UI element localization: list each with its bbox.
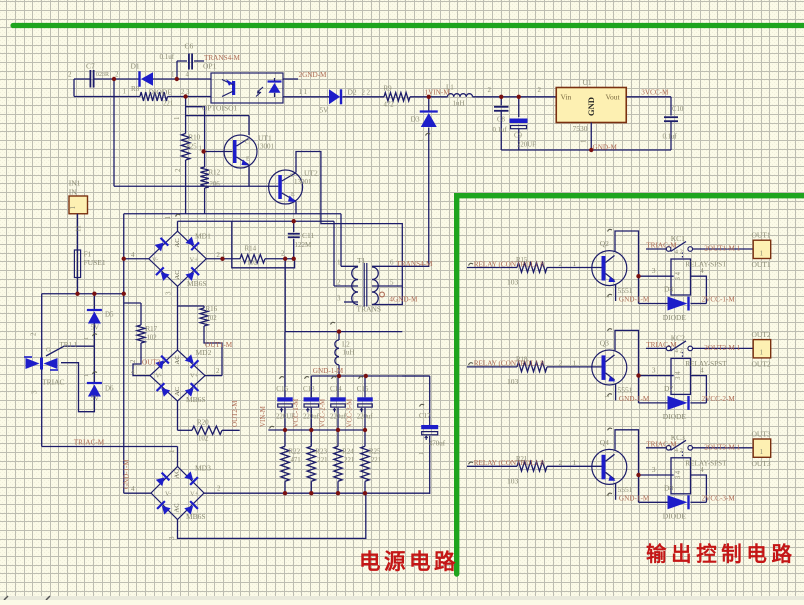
svg-text:1: 1 [760,249,764,257]
svg-text:E: E [291,192,295,198]
svg-text:2OUT2-M 1: 2OUT2-M 1 [704,344,741,352]
svg-text:V-: V- [152,257,158,264]
svg-text:1: 1 [68,206,77,210]
svg-text:2: 2 [559,458,563,467]
svg-text:3 4: 3 4 [675,371,682,380]
svg-text:GND-1-M: GND-1-M [619,395,650,403]
svg-text:TRANS4-M: TRANS4-M [397,260,434,268]
svg-text:2VCC-1-M: 2VCC-1-M [702,296,736,304]
svg-text:102: 102 [247,260,258,267]
svg-text:DIODE: DIODE [663,412,687,421]
svg-text:C13: C13 [303,385,315,393]
svg-text:C16: C16 [276,385,288,393]
svg-text:C15: C15 [357,385,369,393]
svg-text:2: 2 [337,279,341,287]
svg-text:220UF: 220UF [517,141,536,148]
svg-text:IN1: IN1 [69,179,81,188]
svg-text:13001: 13001 [294,178,312,186]
svg-text:DIODE: DIODE [663,512,687,521]
svg-text:4: 4 [131,251,135,259]
svg-text:1: 1 [418,139,425,142]
svg-text:5V: 5V [91,324,100,332]
svg-text:103: 103 [507,377,519,386]
svg-text:221: 221 [317,457,327,464]
svg-text:RELAY (CONTROL1 8: RELAY (CONTROL1 8 [474,459,545,467]
svg-text:4: 4 [131,485,135,493]
svg-text:AC: AC [174,387,181,396]
svg-text:102: 102 [147,335,158,342]
svg-text:D3: D3 [411,115,420,124]
svg-text:R18: R18 [516,356,528,363]
svg-text:DIODE: DIODE [149,88,173,97]
svg-text:3: 3 [165,291,173,295]
svg-text:2: 2 [559,259,563,268]
svg-text:Q2: Q2 [600,239,609,248]
svg-text:2VCC-2-M: 2VCC-2-M [702,395,736,403]
svg-text:MB6S: MB6S [186,512,206,521]
svg-text:R25: R25 [369,448,381,456]
svg-text:6: 6 [390,259,394,267]
svg-text:OUT1: OUT1 [752,260,771,269]
svg-text:1: 1 [123,88,127,96]
svg-text:RELAY (CONTROL1 8: RELAY (CONTROL1 8 [474,260,545,268]
svg-text:T1: T1 [357,256,366,265]
svg-text:1: 1 [573,458,577,467]
svg-text:2: 2 [281,251,285,258]
svg-text:2: 2 [174,168,182,172]
svg-text:1: 1 [573,358,577,367]
svg-text:1: 1 [83,337,90,340]
svg-text:1: 1 [199,146,202,153]
svg-text:TRIAC-M: TRIAC-M [646,242,677,250]
svg-text:Q3: Q3 [600,338,609,347]
svg-text:220uf: 220uf [330,413,347,420]
svg-text:1: 1 [168,449,176,453]
svg-text:C8: C8 [497,117,506,124]
svg-text:0.1uf: 0.1uf [663,134,678,141]
svg-text:3: 3 [337,295,341,303]
svg-text:4 2: 4 2 [675,447,683,454]
svg-text:OUT3: OUT3 [752,429,771,438]
svg-text:Vin: Vin [561,93,572,102]
svg-text:4 2: 4 2 [675,348,683,355]
svg-text:R16: R16 [206,305,218,313]
svg-text:GND-1-M: GND-1-M [123,459,131,489]
svg-text:221: 221 [371,457,381,464]
svg-text:3 4: 3 4 [675,271,682,280]
svg-text:470uf: 470uf [429,439,446,447]
svg-text:RELAY (CONTROL1 8: RELAY (CONTROL1 8 [474,360,545,368]
svg-text:C17: C17 [419,412,431,420]
svg-text:MB6S: MB6S [186,395,206,404]
svg-text:TRANS: TRANS [357,305,382,314]
svg-text:L1: L1 [446,84,454,92]
svg-text:1: 1 [581,140,588,143]
svg-text:OUT1-M: OUT1-M [205,341,233,349]
svg-text:102: 102 [198,436,209,443]
svg-text:OUT2-M: OUT2-M [231,400,239,427]
svg-text:221: 221 [163,101,173,108]
svg-text:R14: R14 [245,245,257,253]
svg-text:VCC-1-M: VCC-1-M [292,398,300,428]
svg-text:471: 471 [291,457,301,464]
svg-text:RELAY-SPST: RELAY-SPST [685,360,727,368]
svg-text:GND-1-M: GND-1-M [619,495,650,503]
svg-text:Vout: Vout [606,93,621,102]
svg-text:GND: GND [586,97,596,116]
svg-text:1uH: 1uH [343,349,355,357]
svg-text:VIN-M: VIN-M [259,405,267,427]
svg-text:3VCC-M: 3VCC-M [641,89,669,97]
svg-text:输出控制电路: 输出控制电路 [646,542,797,566]
svg-text:4: 4 [186,71,190,79]
svg-text:MD2: MD2 [196,348,212,357]
svg-text:220uf: 220uf [303,413,320,420]
svg-text:2: 2 [68,71,72,79]
svg-text:TRIAC-M: TRIAC-M [74,439,105,447]
svg-text:GND-1-M: GND-1-M [619,296,650,304]
svg-text:2OUT1-M 1: 2OUT1-M 1 [704,245,741,253]
svg-text:OPTOISO1: OPTOISO1 [202,104,238,113]
svg-text:2: 2 [217,485,221,493]
svg-text:2: 2 [216,367,220,375]
svg-text:AC: AC [174,469,181,478]
svg-text:825: 825 [187,144,198,151]
svg-text:2VCC-3-M: 2VCC-3-M [702,495,736,503]
svg-text:D1: D1 [131,62,140,71]
svg-text:RELAY-SPST: RELAY-SPST [685,261,727,269]
svg-text:TRIAC-M: TRIAC-M [646,341,677,349]
svg-text:VCC-3-M: VCC-3-M [345,398,353,428]
svg-text:102: 102 [207,315,218,322]
svg-text:4: 4 [131,368,135,376]
svg-text:2: 2 [559,358,563,367]
svg-text:OP1: OP1 [203,62,217,71]
svg-text:2OUT3-M 1: 2OUT3-M 1 [704,443,741,451]
svg-text:V+: V+ [190,257,199,264]
svg-text:1 1: 1 1 [299,89,308,96]
svg-text:TRIAC: TRIAC [42,378,65,387]
svg-text:V+: V+ [190,373,199,380]
svg-text:R15: R15 [516,257,528,264]
svg-text:122M: 122M [295,241,313,249]
svg-text:AC: AC [174,503,181,512]
svg-text:VCC-2-M: VCC-2-M [319,398,327,428]
svg-text:2: 2 [488,86,492,94]
svg-text:2: 2 [538,86,542,94]
svg-text:1: 1 [760,349,764,357]
svg-text:7530: 7530 [573,124,588,133]
svg-text:1uH: 1uH [453,100,465,108]
svg-text:2: 2 [30,332,38,336]
svg-text:V-: V- [165,491,171,498]
svg-text:C9: C9 [514,133,523,140]
svg-text:R9: R9 [384,85,393,93]
svg-text:103: 103 [507,476,519,485]
svg-text:AC: AC [174,270,181,279]
svg-text:GND-M: GND-M [593,144,618,152]
svg-text:OUT2: OUT2 [752,359,771,368]
svg-text:UT1: UT1 [258,134,272,143]
svg-text:5551: 5551 [618,485,633,494]
svg-text:Q4: Q4 [600,438,609,447]
svg-text:1: 1 [164,216,172,220]
svg-text:2 2: 2 2 [362,90,371,97]
svg-text:5V: 5V [320,107,330,115]
svg-text:C6: C6 [185,42,194,51]
svg-text:R24: R24 [342,448,354,456]
svg-text:D8: D8 [664,484,673,493]
svg-text:1: 1 [573,259,577,268]
svg-text:4GND-M: 4GND-M [389,296,418,304]
svg-text:R20: R20 [197,419,209,427]
svg-text:0.1uf: 0.1uf [493,127,508,134]
svg-text:E: E [246,157,250,163]
svg-text:C7: C7 [86,62,95,71]
svg-text:3 4: 3 4 [675,470,682,479]
svg-text:G: G [46,347,51,354]
svg-text:5: 5 [390,279,394,287]
svg-text:D6: D6 [105,385,114,393]
svg-text:3: 3 [652,365,656,374]
svg-text:1: 1 [171,71,175,79]
svg-text:11: 11 [75,225,83,232]
svg-text:RELAY-SPST: RELAY-SPST [685,459,727,467]
svg-text:R12: R12 [209,169,221,177]
svg-text:023R: 023R [96,72,109,78]
svg-text:电源电路: 电源电路 [359,549,459,574]
svg-text:3: 3 [652,465,656,474]
svg-text:R8: R8 [131,85,140,93]
svg-text:5V: 5V [91,395,100,403]
svg-text:IN: IN [69,188,77,197]
svg-text:C: C [245,140,249,146]
svg-text:0.1uf: 0.1uf [160,53,175,61]
svg-text:13001: 13001 [257,143,275,151]
svg-text:221: 221 [344,457,354,464]
svg-text:AC: AC [174,355,181,364]
svg-text:R22: R22 [289,448,301,456]
svg-text:R10: R10 [189,134,201,142]
svg-text:OUT1: OUT1 [752,231,771,240]
svg-text:2 3: 2 3 [181,89,190,96]
svg-text:MB6S: MB6S [187,279,207,288]
svg-text:1: 1 [760,448,764,456]
svg-text:D2: D2 [348,88,357,97]
svg-text:1: 1 [173,116,181,120]
svg-text:OUT2: OUT2 [752,330,771,339]
svg-text:D7: D7 [664,384,673,393]
svg-text:OUT3: OUT3 [752,459,771,468]
svg-text:3: 3 [168,536,176,540]
svg-text:2GND-M: 2GND-M [299,71,328,79]
svg-text:3: 3 [31,390,39,394]
svg-text:MD3: MD3 [195,464,211,473]
svg-text:3: 3 [652,266,656,275]
svg-text:UT2: UT2 [304,169,318,178]
svg-text:R17: R17 [146,325,158,333]
svg-text:2: 2 [115,71,119,79]
svg-text:AC: AC [174,238,181,247]
svg-text:2 1: 2 1 [217,252,226,259]
svg-text:C14: C14 [330,385,342,393]
svg-text:R21: R21 [516,456,527,463]
svg-text:L2: L2 [342,341,350,349]
svg-text:103: 103 [507,278,519,287]
svg-text:C11: C11 [302,231,314,240]
svg-text:1: 1 [418,452,425,455]
svg-text:2: 2 [130,359,137,363]
svg-text:C10: C10 [672,106,684,113]
svg-text:TR1 1: TR1 1 [60,341,78,349]
svg-text:FUSE1: FUSE1 [84,258,106,267]
svg-text:206: 206 [210,181,221,188]
svg-text:5551: 5551 [618,286,633,295]
svg-text:4 2: 4 2 [675,248,683,255]
svg-text:220uf: 220uf [357,413,374,420]
svg-text:1: 1 [337,259,341,267]
svg-text:D4: D4 [664,285,673,294]
svg-text:5551: 5551 [618,386,633,395]
svg-text:1: 1 [83,374,90,377]
svg-text:R23: R23 [315,448,327,456]
svg-text:U1: U1 [583,78,592,87]
svg-text:TRIAC-M: TRIAC-M [646,441,677,449]
svg-text:D5: D5 [105,311,114,319]
svg-text:V-: V- [156,373,162,380]
svg-text:V+: V+ [190,491,199,498]
svg-text:C: C [290,173,294,179]
svg-text:GND-1-M: GND-1-M [313,367,344,375]
svg-text:OUT3: OUT3 [142,359,161,367]
svg-text:MD1: MD1 [195,232,211,241]
svg-text:472: 472 [384,102,395,109]
svg-text:DIODE: DIODE [663,313,687,322]
